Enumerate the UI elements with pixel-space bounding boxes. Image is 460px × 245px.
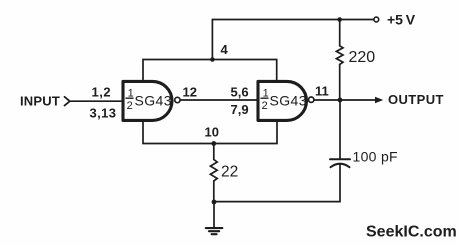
input arrow chevron	[65, 97, 70, 106]
wire node down to R2	[213, 144, 215, 160]
pin label 5,6	[231, 85, 249, 100]
wire U1 top feedback (pin 4)	[143, 60, 277, 82]
INPUT terminal label	[20, 94, 60, 109]
label 22	[221, 163, 238, 180]
pin label 7,9	[231, 102, 249, 117]
wire U1 output to U2 input	[180, 99, 257, 101]
wire rail down to R1	[339, 20, 341, 46]
svg-text:SG43: SG43	[135, 92, 172, 108]
ground	[206, 228, 223, 234]
svg-text:2: 2	[262, 100, 268, 112]
NAND gate U1 (1/2 SG43)	[123, 81, 180, 120]
pin label 1,2	[92, 85, 112, 100]
OUTPUT terminal label	[388, 92, 444, 107]
svg-text:INPUT: INPUT	[20, 94, 60, 109]
resistor R2 22	[210, 160, 217, 181]
wire U1/U2 bottoms (pin 10 net)	[143, 120, 277, 143]
wire R2 down to ground node	[213, 181, 215, 202]
OUTPUT arrowhead	[375, 97, 383, 104]
svg-text:3,13: 3,13	[90, 105, 117, 120]
SeekIC.com watermark	[366, 224, 457, 241]
svg-text:SeekIC.com: SeekIC.com	[366, 224, 457, 241]
svg-text:12: 12	[183, 85, 197, 100]
junction node at ground rail	[212, 200, 217, 205]
label +5 V	[387, 12, 416, 28]
svg-text:2: 2	[127, 100, 133, 112]
wire input to U1	[71, 100, 123, 102]
svg-text:+5 V: +5 V	[387, 12, 416, 28]
svg-text:220: 220	[349, 49, 376, 66]
wire output node to arrow	[340, 99, 375, 101]
NAND gate U2 (1/2 SG43)	[258, 81, 314, 120]
+5V terminal circle	[374, 17, 379, 22]
pin label 4	[221, 42, 229, 57]
capacitor C1	[330, 159, 350, 167]
wire U2 output to output node	[314, 99, 340, 101]
svg-text:7,9: 7,9	[231, 102, 249, 117]
pin label 3,13	[90, 105, 117, 120]
svg-text:22: 22	[221, 163, 238, 180]
wire C1 bottom to ground rail	[214, 164, 340, 202]
resistor R1 220	[336, 46, 343, 65]
junction node on rail	[337, 17, 342, 22]
wire output node down to C1	[339, 100, 341, 158]
label 100 pF	[353, 149, 398, 165]
junction node at feedback tap	[210, 57, 215, 62]
svg-text:10: 10	[205, 125, 219, 140]
svg-text:SG43: SG43	[270, 92, 307, 108]
svg-text:1,2: 1,2	[92, 85, 112, 100]
pin label 11	[315, 83, 329, 98]
wire feedback tap up to +5V rail	[211, 20, 213, 60]
svg-text:OUTPUT: OUTPUT	[388, 92, 444, 107]
wire R1 down to output node	[339, 64, 341, 100]
svg-text:5,6: 5,6	[231, 85, 249, 100]
+5V rail wire	[212, 19, 373, 21]
junction node at output	[338, 98, 343, 103]
label 220	[349, 49, 376, 66]
wire ground node to ground symbol	[213, 202, 215, 227]
svg-text:100 pF: 100 pF	[353, 149, 398, 165]
pin label 10	[205, 125, 219, 140]
pin label 12	[183, 85, 197, 100]
junction node on pin 10 net	[211, 141, 216, 146]
svg-text:4: 4	[221, 42, 229, 57]
svg-text:11: 11	[315, 83, 329, 98]
